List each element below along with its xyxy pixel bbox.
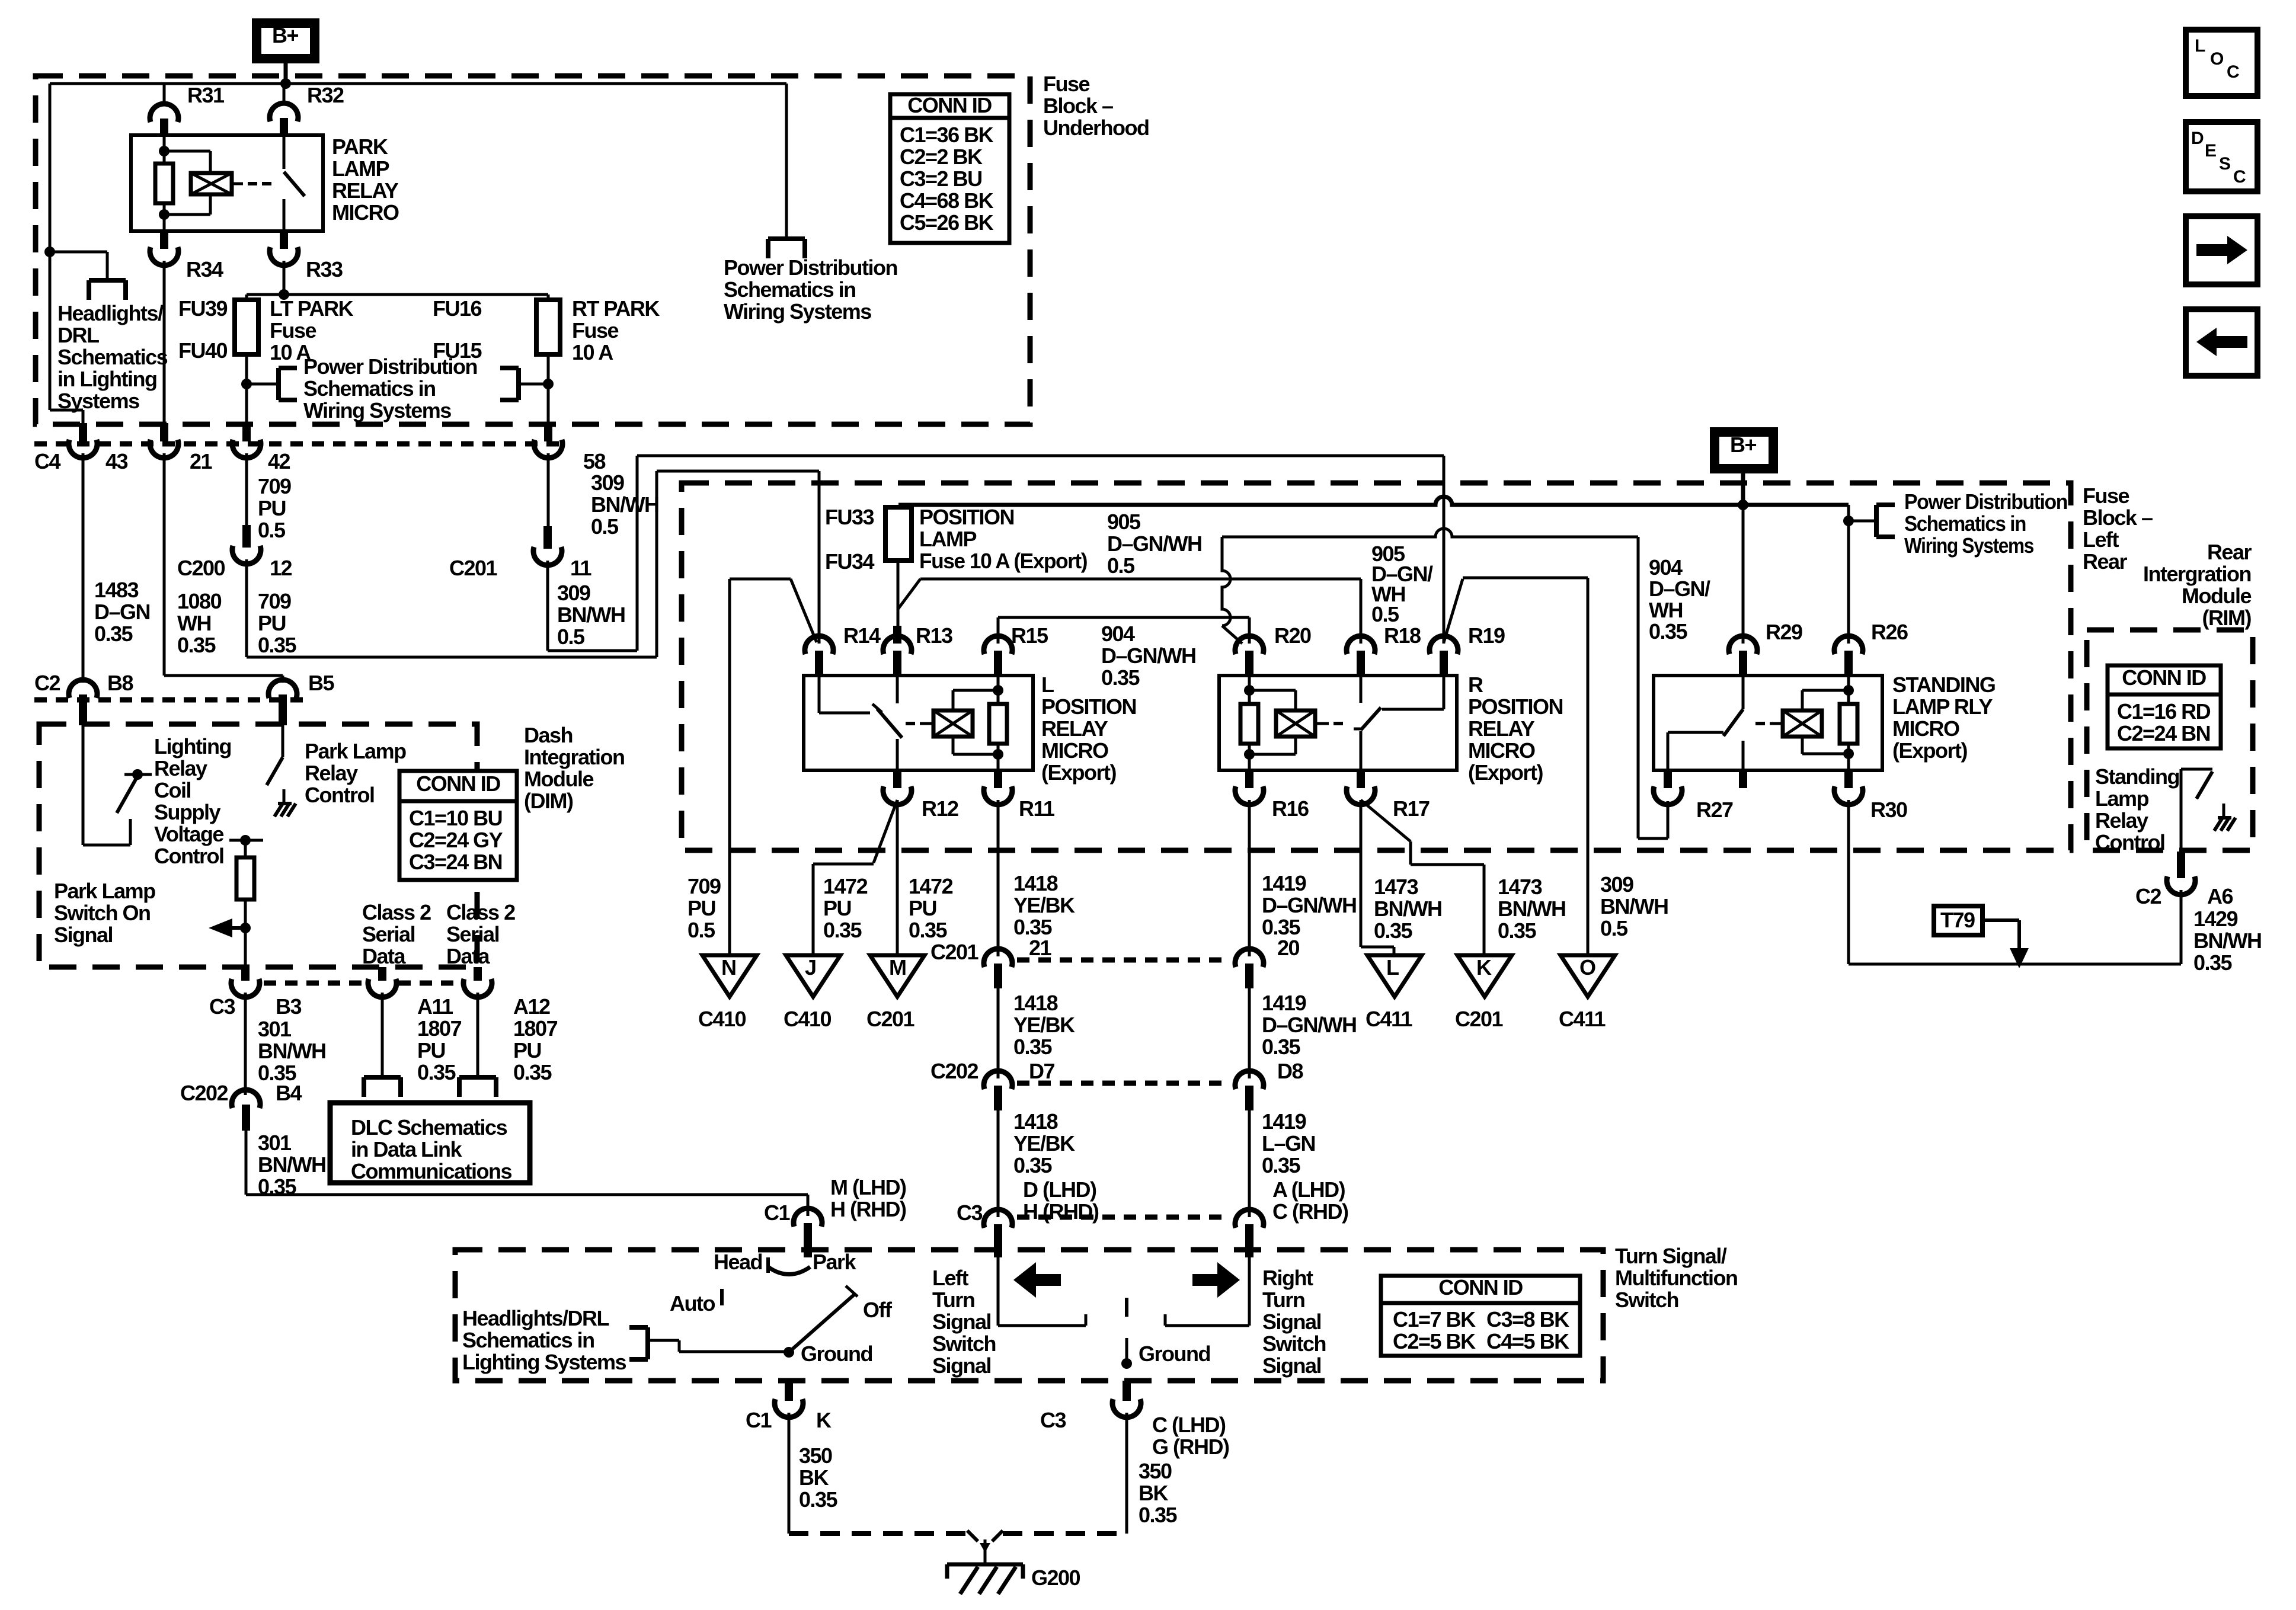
svg-text:0.35: 0.35: [94, 622, 133, 646]
wire 1080 WH 0.35 (pin21 to B5): [164, 453, 283, 683]
connector R19: [1430, 623, 1505, 677]
svg-text:0.35: 0.35: [258, 1174, 297, 1199]
svg-text:B4: B4: [276, 1081, 302, 1105]
svg-text:B5: B5: [308, 671, 334, 695]
svg-text:1429: 1429: [2193, 907, 2238, 931]
svg-text:0.35: 0.35: [177, 633, 216, 657]
svg-text:0.5: 0.5: [557, 625, 585, 649]
svg-text:FU40: FU40: [178, 338, 228, 363]
svg-text:Supply: Supply: [154, 800, 220, 824]
svg-text:D–GN/: D–GN/: [1649, 577, 1710, 601]
svg-text:Switch: Switch: [1262, 1331, 1326, 1356]
svg-text:Rear: Rear: [2207, 540, 2252, 564]
wire 905 D-GN/WH 0.5 (fuse to R18): [898, 510, 1433, 644]
svg-text:Class 2: Class 2: [446, 900, 515, 924]
svg-text:D–GN/WH: D–GN/WH: [1262, 893, 1357, 917]
connector R12: [883, 770, 958, 821]
svg-text:Headlights/: Headlights/: [57, 301, 164, 325]
label LT PARK Fuse 10A: [270, 296, 354, 364]
label POSITION LAMP Fuse 10A Export: [919, 505, 1087, 573]
svg-text:FU16: FU16: [433, 296, 482, 321]
svg-text:Power Distribution: Power Distribution: [724, 255, 897, 280]
svg-text:Multifunction: Multifunction: [1615, 1266, 1737, 1290]
connector row C3/B3 dotted: [264, 981, 462, 986]
connector C3 pin C/G: [1040, 1381, 1229, 1459]
svg-text:C1=36 BK: C1=36 BK: [900, 123, 994, 147]
svg-text:Underhood: Underhood: [1043, 116, 1149, 140]
icon box DESC: [2186, 122, 2257, 191]
svg-text:Turn Signal/: Turn Signal/: [1615, 1244, 1727, 1268]
svg-text:BK: BK: [1139, 1481, 1168, 1505]
wire 1807 PU 0.35 (A12): [459, 993, 558, 1097]
svg-text:LAMP RLY: LAMP RLY: [1892, 694, 1993, 719]
svg-text:0.5: 0.5: [258, 518, 286, 542]
svg-text:Headlights/DRL: Headlights/DRL: [462, 1306, 609, 1330]
svg-text:B+: B+: [272, 23, 298, 47]
connector row C202 dotted: [1017, 1081, 1230, 1086]
ground G200: [947, 1531, 1080, 1594]
svg-text:R30: R30: [1870, 798, 1907, 822]
svg-text:PU: PU: [513, 1038, 541, 1062]
svg-text:BN/WH: BN/WH: [1600, 894, 1668, 918]
svg-text:Off: Off: [863, 1298, 893, 1322]
labels FU39 FU40: [178, 296, 228, 363]
svg-text:YE/BK: YE/BK: [1013, 893, 1075, 917]
wire 904 D-GN/WH 0.35 (R15 to R20): [998, 617, 1249, 690]
svg-text:CONN ID: CONN ID: [907, 93, 992, 117]
svg-text:R20: R20: [1274, 623, 1311, 648]
svg-text:Fuse: Fuse: [1043, 72, 1090, 96]
connector R34: [150, 231, 223, 422]
arrow right turn: [1192, 1262, 1240, 1298]
svg-text:PU: PU: [258, 496, 286, 520]
svg-text:C3: C3: [209, 994, 235, 1019]
wire 1419 D-GN/WH 0.35 (R16 chain): [1249, 800, 1357, 960]
svg-text:FU15: FU15: [433, 338, 482, 363]
svg-text:1807: 1807: [513, 1016, 558, 1041]
svg-text:R15: R15: [1011, 623, 1048, 648]
svg-text:0.35: 0.35: [1013, 1035, 1053, 1059]
label L POSITION RELAY MICRO Export: [1041, 673, 1136, 785]
svg-text:BN/WH: BN/WH: [2193, 929, 2261, 953]
connector R15: [984, 617, 1048, 677]
wire 1418 YE/BK 0.35 (to C3): [998, 1109, 1099, 1224]
connector C4 pin 58: [534, 423, 606, 473]
svg-text:C2=2 BK: C2=2 BK: [900, 145, 983, 169]
relay K3 R POSITION RELAY MICRO box: [1219, 676, 1457, 770]
svg-text:0.5: 0.5: [687, 918, 715, 942]
svg-text:Coil: Coil: [154, 778, 191, 802]
svg-text:Class 2: Class 2: [362, 900, 431, 924]
svg-text:R13: R13: [916, 623, 952, 648]
svg-text:D–GN: D–GN: [94, 600, 150, 624]
svg-text:Intergration: Intergration: [2143, 562, 2251, 586]
arrow left turn: [1013, 1262, 1061, 1298]
svg-text:D–GN/WH: D–GN/WH: [1262, 1013, 1357, 1037]
svg-text:Block –: Block –: [2083, 505, 2153, 530]
svg-text:Schematics in: Schematics in: [462, 1328, 594, 1352]
left turn switch contact: [998, 1257, 1086, 1326]
svg-text:Switch: Switch: [1615, 1288, 1678, 1312]
label Lighting Relay Coil Supply Voltage Control: [154, 734, 231, 868]
switch standing lamp relay control with ground: [2181, 769, 2236, 852]
turn signal multifunction switch dashed outline: [455, 1250, 1603, 1381]
svg-text:R16: R16: [1272, 796, 1309, 821]
svg-text:B3: B3: [276, 994, 301, 1019]
svg-text:E: E: [2205, 141, 2216, 161]
svg-text:POSITION: POSITION: [1041, 694, 1136, 719]
svg-text:1419: 1419: [1262, 1109, 1306, 1134]
svg-text:L: L: [1386, 955, 1399, 980]
svg-text:Switch: Switch: [932, 1331, 996, 1356]
svg-text:B+: B+: [1730, 433, 1756, 457]
svg-text:BN/WH: BN/WH: [557, 603, 625, 627]
icon box left arrow: [2186, 309, 2257, 376]
svg-text:BN/WH: BN/WH: [258, 1153, 325, 1177]
switch headlamp selector blade: [670, 1286, 893, 1366]
CONN ID table (turn switch): [1381, 1275, 1580, 1356]
wire 1473 BN/WH 0.35 to K: [1361, 800, 1565, 956]
labels FU16 FU15: [433, 296, 482, 363]
svg-text:Systems: Systems: [57, 389, 139, 413]
svg-text:D8: D8: [1277, 1059, 1303, 1083]
svg-text:Fuse: Fuse: [572, 318, 619, 343]
svg-text:Data: Data: [362, 944, 407, 968]
svg-text:R29: R29: [1766, 620, 1802, 644]
connector R20: [1235, 623, 1311, 677]
svg-text:1807: 1807: [417, 1016, 462, 1041]
svg-text:Relay: Relay: [154, 756, 207, 780]
svg-text:(Export): (Export): [1468, 760, 1543, 785]
svg-text:PU: PU: [417, 1038, 445, 1062]
svg-text:309: 309: [591, 470, 624, 495]
label Park Lamp Relay Control: [305, 739, 406, 807]
relay K3 internals: [1240, 676, 1444, 770]
wire 1419 D-GN/WH 0.35 (to D8): [1249, 988, 1357, 1078]
svg-text:904: 904: [1649, 555, 1683, 580]
svg-text:N: N: [721, 955, 736, 980]
svg-text:Fuse: Fuse: [2083, 484, 2129, 508]
switch park lamp relay control with ground: [267, 725, 296, 817]
label STANDING LAMP RLY MICRO Export: [1892, 673, 1995, 763]
connector C202 pin B4: [180, 1081, 302, 1131]
connector R11: [984, 770, 1055, 821]
svg-text:0.5: 0.5: [1107, 553, 1135, 578]
svg-text:1080: 1080: [177, 589, 222, 613]
svg-text:Serial: Serial: [446, 922, 499, 946]
wire 309 BN/WH 0.5 (C201-11 to R19): [548, 456, 1444, 651]
wire 709 PU 0.5 to C410: [687, 579, 791, 955]
svg-text:LAMP: LAMP: [919, 527, 976, 551]
svg-text:S: S: [2219, 154, 2230, 174]
svg-text:709: 709: [258, 474, 291, 498]
module DIM dashed outline: [39, 724, 477, 967]
svg-text:J: J: [805, 955, 816, 980]
wire fuse feed header: [247, 289, 548, 300]
svg-text:0.35: 0.35: [799, 1487, 838, 1512]
svg-text:M: M: [889, 955, 906, 980]
svg-text:Auto: Auto: [670, 1291, 715, 1315]
svg-text:1419: 1419: [1262, 991, 1306, 1015]
svg-text:RELAY: RELAY: [1468, 716, 1535, 741]
label Rear Intergration Module (RIM): [2143, 540, 2252, 630]
svg-text:0.35: 0.35: [1262, 1153, 1301, 1177]
connector C2 pin A6 (RIM): [2135, 852, 2233, 908]
label 904 D-GN/WH 0.35 (right): [1649, 555, 1710, 644]
svg-text:C411: C411: [1559, 1007, 1606, 1031]
connector C4 pin 21: [150, 423, 213, 473]
svg-text:11: 11: [570, 556, 592, 580]
icon box LOC: [2186, 30, 2257, 96]
label Right Turn Signal Switch Signal: [1262, 1266, 1326, 1378]
svg-text:C (LHD): C (LHD): [1152, 1413, 1226, 1437]
reference Power Distribution Schematics in Wiring Systems (top): [724, 84, 897, 324]
svg-text:0.35: 0.35: [1139, 1503, 1178, 1527]
svg-text:LAMP: LAMP: [332, 156, 389, 181]
svg-text:C202: C202: [930, 1059, 978, 1083]
svg-text:PARK: PARK: [332, 135, 388, 159]
connector C2 pin B5: [268, 671, 334, 725]
connector row C2 dashed: [34, 697, 308, 703]
node park lamp switch resistor chain: [229, 835, 263, 968]
svg-text:Park Lamp: Park Lamp: [305, 739, 406, 763]
svg-text:Signal: Signal: [1262, 1353, 1321, 1378]
connector R26: [1834, 620, 1908, 677]
svg-text:PU: PU: [687, 896, 715, 920]
svg-text:L: L: [2195, 36, 2205, 56]
svg-text:0.35: 0.35: [2193, 950, 2233, 975]
svg-text:CONN ID: CONN ID: [2122, 665, 2206, 690]
svg-text:C4=68 BK: C4=68 BK: [900, 188, 994, 213]
svg-text:O: O: [1579, 955, 1595, 980]
svg-text:Block –: Block –: [1043, 94, 1113, 118]
svg-text:R18: R18: [1384, 623, 1421, 648]
svg-text:FU33: FU33: [825, 505, 874, 529]
svg-text:Rear: Rear: [2083, 549, 2128, 574]
svg-text:Signal: Signal: [932, 1353, 991, 1378]
power symbol B+ (battery feed, underhood): [252, 18, 319, 63]
svg-text:0.35: 0.35: [909, 918, 948, 942]
connector A12 (DIM): [463, 967, 550, 1019]
label Turn Signal/Multifunction Switch: [1615, 1244, 1737, 1312]
svg-text:L–GN: L–GN: [1262, 1131, 1315, 1156]
connector R16: [1235, 770, 1309, 821]
svg-text:Wiring Systems: Wiring Systems: [724, 299, 871, 324]
CONN ID table (fuse block underhood): [890, 93, 1009, 243]
connector C1 pin K: [746, 1381, 832, 1432]
label Park Lamp Switch On Signal: [54, 879, 155, 947]
svg-text:C202: C202: [180, 1081, 228, 1105]
svg-text:B8: B8: [107, 671, 133, 695]
svg-text:(DIM): (DIM): [524, 789, 573, 813]
svg-text:T79: T79: [1940, 908, 1975, 932]
svg-text:Power Distribution: Power Distribution: [1904, 489, 2067, 514]
svg-text:D7: D7: [1029, 1059, 1054, 1083]
svg-text:R: R: [1468, 673, 1483, 697]
connector C202 pin D7: [930, 1059, 1054, 1110]
svg-text:1418: 1418: [1013, 1109, 1058, 1134]
switch head/park rocker: [714, 1250, 857, 1275]
svg-text:RELAY: RELAY: [332, 178, 399, 203]
svg-text:G (RHD): G (RHD): [1152, 1435, 1229, 1459]
svg-text:58: 58: [583, 449, 606, 473]
svg-text:C (RHD): C (RHD): [1272, 1199, 1348, 1224]
connector R30: [1834, 770, 1907, 822]
connector R33: [270, 231, 343, 295]
svg-text:in Data Link: in Data Link: [351, 1137, 463, 1161]
connector R14: [791, 579, 881, 677]
connector row C3 dotted: [1017, 1215, 1230, 1220]
svg-text:PU: PU: [258, 611, 286, 635]
svg-text:C: C: [2227, 62, 2239, 82]
svg-text:Turn: Turn: [1262, 1288, 1304, 1312]
svg-text:12: 12: [270, 556, 292, 580]
wire 1472 PU 0.35 to J: [813, 800, 897, 955]
wire B+ bus (left rear): [898, 473, 1849, 510]
svg-text:0.35: 0.35: [513, 1060, 552, 1084]
svg-text:C1=7 BK: C1=7 BK: [1393, 1307, 1476, 1331]
svg-text:0.5: 0.5: [591, 514, 619, 539]
wire 1418 YE/BK 0.35 (to D7): [998, 988, 1075, 1078]
svg-text:1473: 1473: [1498, 875, 1542, 899]
svg-text:WH: WH: [177, 611, 211, 635]
switch lighting relay coil supply voltage control: [83, 725, 152, 845]
relay K2 internals: [819, 676, 1007, 770]
svg-text:DLC Schematics: DLC Schematics: [351, 1115, 507, 1140]
svg-text:RELAY: RELAY: [1041, 716, 1108, 741]
svg-text:A (LHD): A (LHD): [1272, 1177, 1345, 1202]
label Class 2 Serial Data (left): [362, 900, 431, 968]
wire 350 BK 0.35 (left ground): [789, 1413, 838, 1534]
svg-text:C411: C411: [1366, 1007, 1413, 1031]
svg-text:309: 309: [557, 581, 590, 605]
svg-text:C3: C3: [1040, 1408, 1066, 1432]
relay K4 STANDING LAMP RLY MICRO box: [1654, 676, 1882, 770]
svg-text:R11: R11: [1019, 796, 1055, 821]
label Fuse Block - Underhood: [1043, 72, 1149, 140]
svg-text:DRL: DRL: [57, 323, 99, 347]
svg-text:Lamp: Lamp: [2095, 786, 2149, 811]
reference T79 splice: [1934, 906, 2029, 968]
connector C1 M/H (turn switch): [764, 1175, 906, 1257]
svg-text:BN/WH: BN/WH: [1374, 897, 1441, 921]
reference box DLC Schematics in Data Link Communications: [330, 1103, 530, 1183]
wire 1472 PU 0.35 to M: [897, 800, 953, 955]
svg-text:K: K: [816, 1408, 832, 1432]
svg-text:Communications: Communications: [351, 1159, 512, 1183]
module RIM dashed outline: [2087, 630, 2253, 850]
connector C201 pin 11: [449, 526, 592, 580]
fuse block left rear dashed outline: [682, 483, 2071, 850]
svg-text:0.5: 0.5: [1600, 916, 1628, 940]
relay K4 internals: [1668, 676, 1857, 788]
connector R29: [1729, 505, 1802, 677]
svg-text:Lighting Systems: Lighting Systems: [462, 1350, 626, 1374]
svg-text:FU39: FU39: [178, 296, 228, 321]
svg-text:(RIM): (RIM): [2202, 606, 2252, 630]
svg-text:C3=24 BN: C3=24 BN: [409, 850, 502, 874]
svg-text:BK: BK: [799, 1465, 829, 1490]
svg-text:Integration: Integration: [524, 745, 625, 769]
svg-text:R27: R27: [1696, 798, 1733, 822]
svg-text:Control: Control: [305, 783, 374, 807]
svg-text:Park Lamp: Park Lamp: [54, 879, 155, 903]
connector C202 pin D8: [1235, 1059, 1303, 1110]
wire R19 to O triangle 309 BN/WH 0.5: [1444, 578, 1668, 954]
label 1429 BN/WH 0.35: [2193, 907, 2261, 975]
svg-text:O: O: [2210, 49, 2224, 69]
svg-text:(Export): (Export): [1892, 738, 1968, 763]
arrow park lamp switch on signal: [209, 918, 245, 937]
label Dash Integration Module (DIM): [524, 723, 625, 813]
label PARK LAMP RELAY MICRO: [332, 135, 399, 225]
wire 309 BN/WH 0.5 (pin58): [548, 453, 658, 539]
svg-text:Schematics: Schematics: [57, 345, 168, 369]
reference Power Distribution Schematics in Wiring Systems (right): [1843, 489, 2067, 644]
svg-text:1472: 1472: [823, 874, 868, 898]
svg-text:Schematics in: Schematics in: [1904, 511, 2026, 536]
svg-text:1418: 1418: [1013, 871, 1058, 895]
svg-text:0.35: 0.35: [1101, 665, 1140, 690]
svg-text:A6: A6: [2207, 884, 2233, 908]
svg-text:Schematics in: Schematics in: [303, 376, 436, 401]
right turn switch blade and ground: [1121, 1298, 1210, 1369]
svg-text:BN/WH: BN/WH: [591, 492, 658, 517]
svg-text:C: C: [2233, 167, 2246, 187]
wire 1473 BN/WH 0.35 to L: [1361, 800, 1441, 956]
triangle connector K C201: [1455, 955, 1512, 1031]
svg-text:709: 709: [687, 874, 721, 898]
svg-text:C201: C201: [930, 940, 979, 964]
relay K1 PARK LAMP RELAY MICRO box: [131, 135, 323, 231]
svg-text:904: 904: [1101, 622, 1135, 646]
connector R13: [883, 623, 952, 677]
svg-text:C1=16 RD: C1=16 RD: [2117, 699, 2211, 724]
svg-text:Serial: Serial: [362, 922, 415, 946]
svg-text:Module: Module: [2182, 584, 2251, 608]
svg-text:1473: 1473: [1374, 875, 1418, 899]
wire 1419 L-GN 0.35 (to A/C): [1249, 1109, 1348, 1224]
svg-text:R32: R32: [307, 83, 344, 107]
svg-text:Fuse 10 A (Export): Fuse 10 A (Export): [919, 549, 1087, 573]
svg-text:21: 21: [1029, 936, 1052, 960]
svg-text:BN/WH: BN/WH: [258, 1039, 325, 1063]
svg-text:C4: C4: [34, 449, 60, 473]
svg-text:Fuse: Fuse: [270, 318, 316, 343]
svg-text:C4=5 BK: C4=5 BK: [1486, 1329, 1569, 1353]
power symbol B+ (left rear): [1710, 427, 1778, 473]
connector A/C right turn (switch): [1235, 1209, 1264, 1257]
svg-text:R17: R17: [1393, 796, 1430, 821]
svg-text:POSITION: POSITION: [919, 505, 1014, 529]
wire 301 BN/WH 0.35 (C202 to C1): [246, 1131, 808, 1216]
svg-text:Switch On: Switch On: [54, 901, 151, 925]
label Class 2 Serial Data (right): [446, 900, 515, 968]
svg-text:1483: 1483: [94, 578, 139, 602]
svg-text:Signal: Signal: [932, 1310, 991, 1334]
label RT PARK Fuse 10A: [572, 296, 660, 364]
wire 350 BK 0.35 (right ground): [1127, 1413, 1178, 1534]
svg-text:YE/BK: YE/BK: [1013, 1131, 1075, 1156]
wire 709 PU 0.5 (pin42): [247, 453, 291, 542]
label Left Turn Signal Switch Signal: [932, 1266, 996, 1378]
svg-text:0.35: 0.35: [1374, 918, 1413, 943]
svg-text:R34: R34: [186, 257, 223, 281]
svg-text:C2=24 BN: C2=24 BN: [2117, 721, 2210, 745]
svg-text:0.35: 0.35: [1498, 918, 1537, 943]
svg-text:43: 43: [105, 449, 128, 473]
right turn switch contact: [1165, 1257, 1249, 1326]
